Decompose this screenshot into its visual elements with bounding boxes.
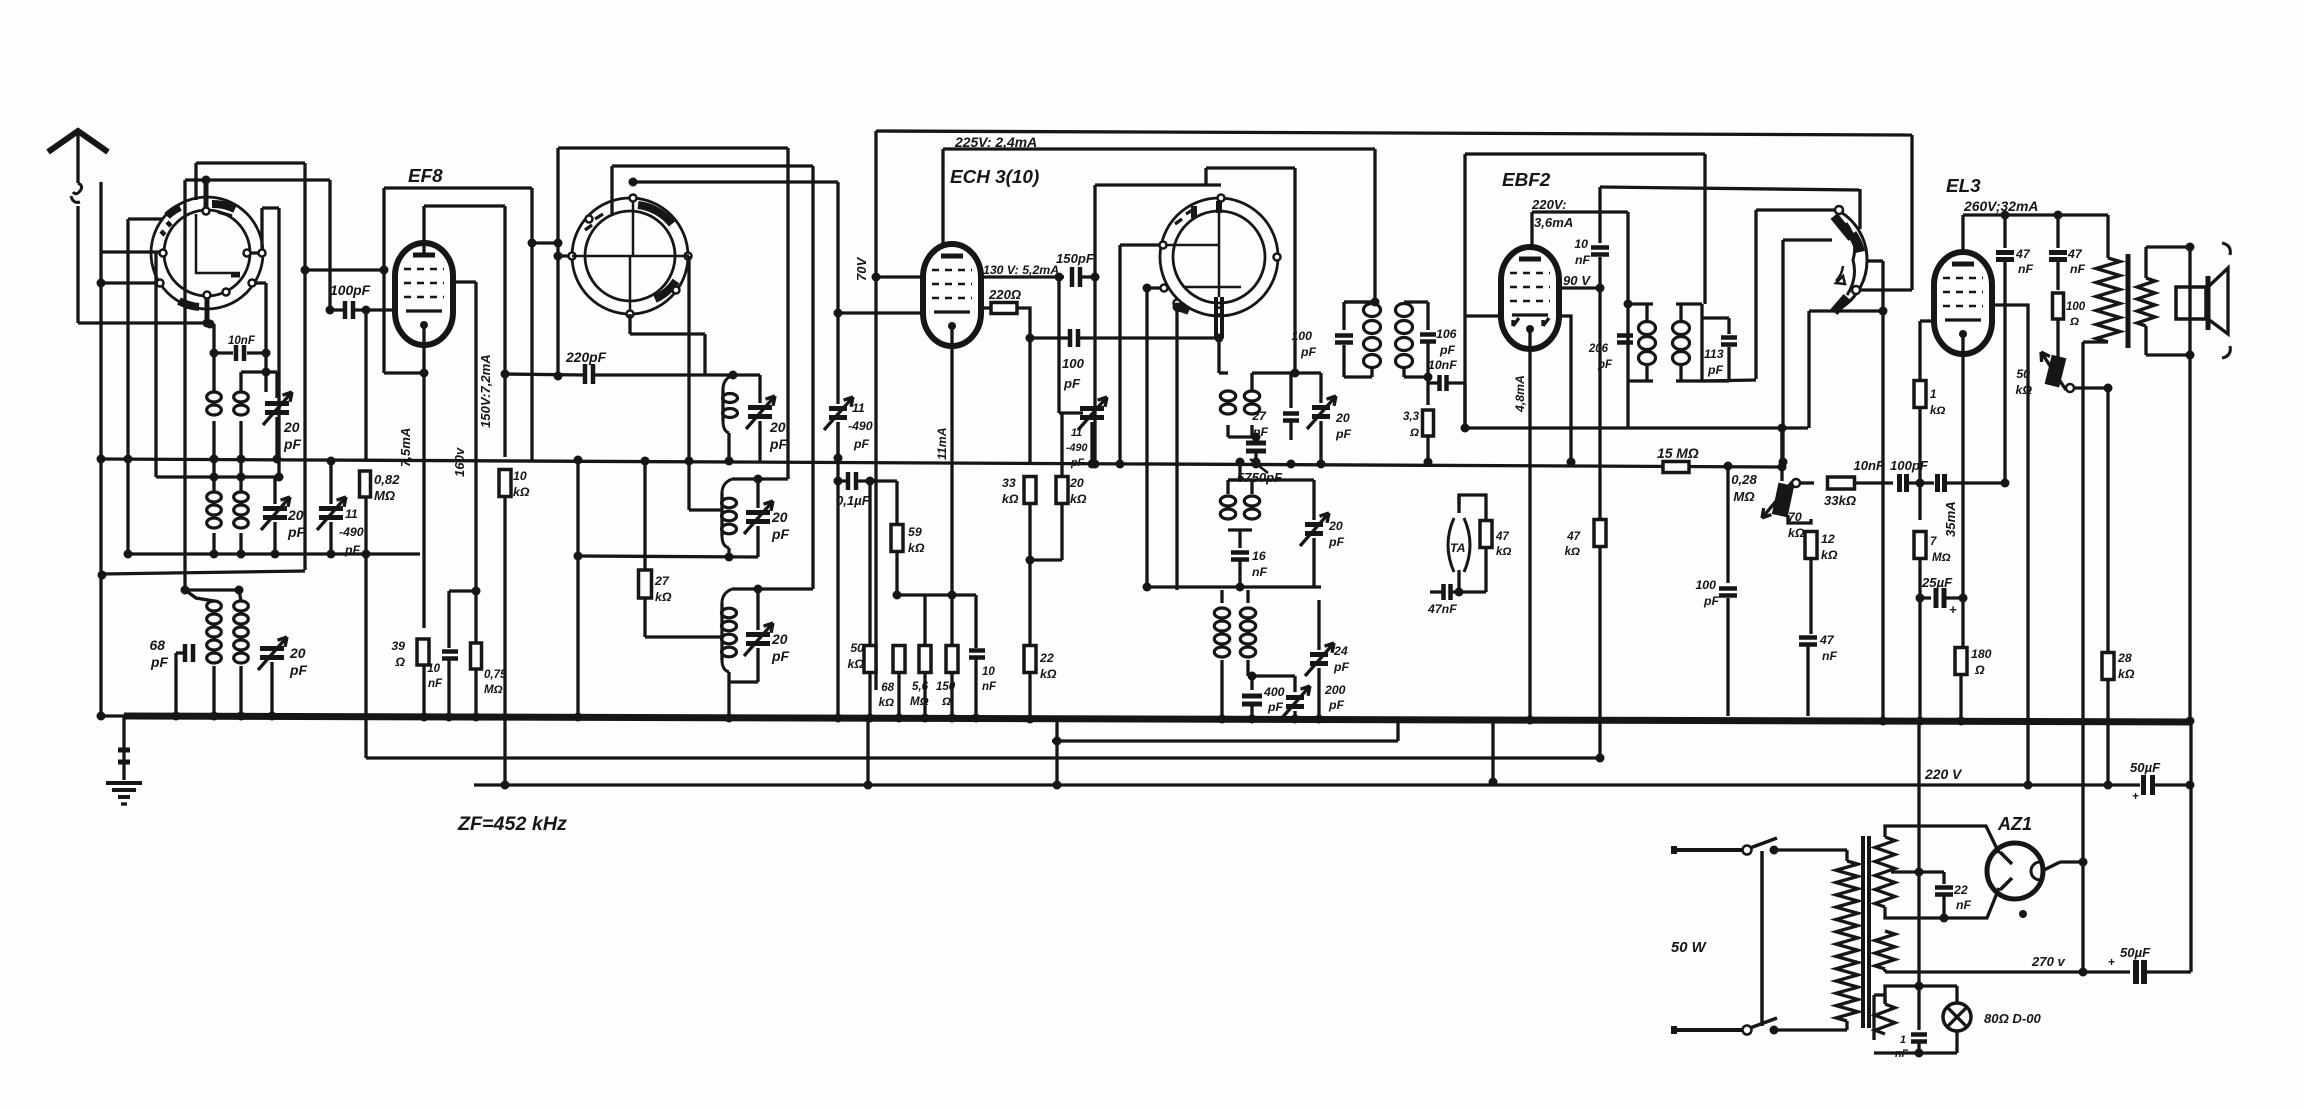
wires pair3 to bus: [212, 666, 215, 716]
output transformer secondary: [2137, 278, 2155, 326]
svg-text:20: 20: [771, 509, 788, 525]
capacitor 27pF: [1283, 411, 1299, 416]
resistor 220 Ohm: [981, 306, 991, 309]
switch A bottom stem: [205, 298, 210, 324]
svg-text:EF8: EF8: [408, 166, 443, 187]
svg-text:1: 1: [1900, 1034, 1906, 1046]
wire EBF2 cathode: [1528, 328, 1531, 720]
wire rail feeders: [866, 719, 869, 785]
capacitor 206pF: [1617, 333, 1633, 338]
wire 33k chain down: [1028, 504, 1031, 645]
trimmer 20pF osc set3: [756, 589, 759, 630]
wire switch A right stubs: [250, 251, 259, 254]
svg-text:5750pF: 5750pF: [1237, 470, 1283, 485]
resistor 10kOhm plate feed: [503, 374, 506, 457]
capacitor 68pF: [176, 651, 183, 654]
svg-text:pF: pF: [853, 437, 870, 451]
svg-text:50µF: 50µF: [2130, 760, 2161, 775]
svg-text:220pF: 220pF: [565, 349, 607, 365]
wire switch D feeds: [1910, 135, 1913, 290]
svg-text:22: 22: [1953, 883, 1968, 897]
band switch S1 section B: [572, 198, 688, 314]
wire osc top line to mixer grid: [629, 178, 638, 187]
wire osc grid coupling 0,1uF: [836, 422, 839, 718]
tuning gang C1 11-490pF: [329, 459, 332, 504]
svg-text:16: 16: [1252, 549, 1266, 563]
IF3 coils: [1214, 608, 1229, 618]
tube EL3: [1934, 252, 1992, 354]
svg-text:400: 400: [1263, 685, 1285, 699]
svg-text:EBF2: EBF2: [1502, 170, 1551, 191]
svg-text:MΩ: MΩ: [910, 696, 929, 708]
svg-text:130 V: 5,2mA: 130 V: 5,2mA: [983, 263, 1059, 277]
ground symbol: [106, 781, 142, 785]
capacitor 47nF: [1799, 635, 1817, 640]
wire EBF2 screen feed: [1532, 210, 1628, 213]
svg-text:nF: nF: [428, 678, 443, 690]
wire EL3 cathode: [1961, 333, 1964, 598]
svg-text:50 W: 50 W: [1671, 940, 1708, 956]
svg-text:+: +: [2108, 957, 2115, 969]
svg-text:-490: -490: [848, 419, 873, 433]
svg-text:27: 27: [654, 574, 670, 588]
svg-text:Ω: Ω: [2069, 316, 2079, 328]
wire tone tap down: [2106, 388, 2109, 652]
svg-text:50: 50: [850, 641, 864, 655]
svg-text:260V;32mA: 260V;32mA: [1963, 198, 2038, 214]
svg-text:15 MΩ: 15 MΩ: [1657, 445, 1699, 461]
svg-text:Ω: Ω: [1974, 663, 1985, 677]
ground lead: [122, 716, 125, 780]
svg-text:10nF: 10nF: [1853, 458, 1885, 473]
wire heater line down: [1917, 721, 1920, 872]
wire vertical feeder x101: [99, 182, 102, 716]
capacitor 100pF AVC: [1726, 466, 1729, 583]
capacitor 113pF: [1702, 316, 1729, 319]
power transformer primary: [1836, 861, 1858, 1021]
wire 220R to 100pF: [1017, 308, 1030, 338]
resistor 100 Ohm: [2053, 293, 2064, 319]
tuning gang stator feed: [1057, 277, 1060, 413]
wire EBF2 plate stub: [1559, 286, 1600, 289]
trimmer 200pF: [1286, 695, 1304, 700]
pilot lamp: [1943, 1003, 1971, 1031]
wire pot top: [1780, 428, 1783, 481]
wire pair1 bottom rail y459: [101, 459, 1782, 467]
wire 1,5MOhm AVC: [1663, 462, 1689, 473]
wire pot bottom chain 70kOhm: [1788, 515, 1811, 523]
capacitor 47nF EL3 b: [2056, 215, 2059, 248]
wire AVC line y187 to right: [1600, 187, 1859, 190]
svg-text:11: 11: [852, 401, 865, 415]
svg-text:MΩ: MΩ: [1733, 489, 1754, 504]
wire ECH3 plate rail: [943, 147, 1375, 150]
mains terminals: [1674, 848, 1743, 852]
svg-text:kΩ: kΩ: [1821, 548, 1838, 562]
output transformer core: [2126, 254, 2131, 348]
wire EL3 screen: [1991, 305, 2028, 785]
svg-text:20: 20: [1069, 476, 1084, 490]
svg-text:3,6mA: 3,6mA: [1534, 215, 1573, 230]
svg-text:68: 68: [881, 682, 894, 694]
svg-text:7: 7: [1930, 536, 1937, 548]
svg-text:pF: pF: [1267, 700, 1284, 714]
svg-text:25µF: 25µF: [1921, 575, 1953, 590]
svg-text:20: 20: [289, 645, 306, 661]
resistor 20kOhm: [1056, 477, 1068, 504]
wire ECH3 plate to 150pF: [981, 275, 1064, 278]
capacitor 50uF a: [2141, 775, 2146, 795]
svg-text:1: 1: [1930, 389, 1936, 401]
wire TA branch: [1459, 495, 1486, 520]
wire EL3 grid: [1920, 319, 1935, 322]
tube ECH3: [923, 244, 981, 346]
svg-text:47: 47: [2067, 247, 2083, 261]
wire 7M chain to bus: [1918, 598, 1921, 721]
coil L2b: [239, 459, 242, 492]
svg-text:-490: -490: [339, 525, 364, 539]
svg-text:pF: pF: [1703, 594, 1720, 608]
potentiometer 0,28MOhm: [1773, 484, 1793, 516]
svg-text:47: 47: [1819, 633, 1835, 647]
wire ECH3 mixer grid line: [838, 311, 924, 314]
power transformer core: [1861, 836, 1865, 1028]
svg-text:kΩ: kΩ: [1496, 546, 1511, 558]
capacitor 100pF grid: [1935, 474, 1940, 492]
antenna: [48, 131, 108, 152]
svg-text:10: 10: [982, 666, 995, 678]
wire osc box outer: [558, 146, 788, 149]
svg-text:10: 10: [427, 663, 440, 675]
svg-text:pF: pF: [1333, 660, 1350, 674]
svg-text:11: 11: [1071, 427, 1082, 439]
wire EBF2 box: [1465, 152, 1705, 155]
svg-text:7,5mA: 7,5mA: [398, 428, 413, 467]
svg-text:0,1µF: 0,1µF: [836, 493, 871, 508]
wire volume pot feed: [1778, 463, 1787, 472]
svg-text:20: 20: [1335, 411, 1350, 425]
svg-text:0,28: 0,28: [1731, 472, 1757, 487]
wire osc set2 bottom rail: [578, 556, 758, 557]
wire 270V line: [1883, 969, 1886, 972]
svg-text:100: 100: [1291, 329, 1312, 343]
wire 70V line: [876, 275, 924, 278]
wire upper line y163: [196, 161, 305, 164]
svg-text:24: 24: [1333, 644, 1348, 658]
svg-text:22: 22: [1039, 651, 1054, 665]
wire ECH3 cathode down: [950, 325, 953, 595]
switch D contact segment bottom: [1834, 297, 1847, 312]
svg-text:kΩ: kΩ: [2118, 667, 2135, 681]
svg-text:+: +: [2132, 791, 2139, 803]
oscillator coil set3: [722, 589, 732, 603]
svg-text:11: 11: [345, 507, 358, 521]
svg-text:MΩ: MΩ: [1932, 552, 1951, 564]
svg-text:pF: pF: [771, 526, 789, 542]
svg-text:39: 39: [391, 639, 405, 653]
svg-text:kΩ: kΩ: [513, 485, 530, 499]
coil L1a: [212, 324, 215, 392]
band switch S1 section D arc: [1839, 211, 1867, 308]
svg-text:70V: 70V: [854, 256, 869, 281]
wire switch B right stub down: [684, 254, 689, 257]
svg-text:nF: nF: [982, 681, 997, 693]
svg-text:33: 33: [1002, 476, 1016, 490]
wire HT center tap: [1891, 870, 1944, 873]
wire EBF2 anode to y465: [1559, 316, 1571, 462]
svg-text:pF: pF: [1439, 343, 1456, 357]
capacitor 100pF IF1: [1030, 336, 1068, 339]
svg-text:pF: pF: [1063, 376, 1081, 391]
svg-text:47: 47: [1495, 531, 1509, 543]
wire speaker field down: [2188, 355, 2191, 721]
output transformer primary: [2106, 215, 2109, 258]
IF2 transformer right LC: [1676, 302, 1702, 305]
power transformer heater winding: [1875, 931, 1895, 969]
wire IF interstage top: [1344, 300, 1375, 303]
resistor 1kOhm grid stopper: [1914, 381, 1926, 408]
capacitor 10nF grid: [1897, 474, 1902, 492]
svg-text:20: 20: [1328, 519, 1343, 533]
wire AVC y243: [532, 241, 558, 244]
capacitor 22nF: [1942, 872, 1945, 884]
svg-text:206: 206: [1588, 343, 1609, 355]
resistor 3,3 Ohm: [1426, 383, 1429, 405]
wire lamp rail: [1885, 986, 1957, 1004]
svg-text:50µF: 50µF: [2120, 945, 2151, 960]
wire primary bottom: [2083, 340, 2108, 343]
capacitor 10nF: [969, 648, 985, 653]
svg-text:kΩ: kΩ: [2016, 383, 2033, 397]
IF interstage secondary coil: [1396, 304, 1413, 317]
tube EBF2: [1501, 247, 1559, 349]
switch D rotor arrow: [1836, 266, 1843, 281]
wire mains to primary: [1774, 848, 1847, 851]
wire EF8 box: [384, 186, 532, 189]
svg-text:nF: nF: [1575, 253, 1591, 267]
wire EL3 HT line: [1963, 213, 2108, 216]
capacitor 47nF EL3 a: [2003, 215, 2006, 248]
wire AZ1 up feed: [2081, 342, 2084, 862]
svg-text:pF: pF: [287, 524, 305, 540]
wire osc box second: [612, 164, 813, 167]
svg-text:MΩ: MΩ: [374, 488, 395, 503]
resistor 68kOhm: [893, 646, 905, 673]
wire det output: [1626, 381, 1629, 428]
svg-text:MΩ: MΩ: [484, 684, 503, 696]
wire EF8 screen 160V: [452, 280, 476, 283]
wire right edge down: [2189, 721, 2192, 972]
svg-text:270 v: 270 v: [2031, 954, 2065, 969]
trimmer 24pF: [1310, 652, 1328, 657]
svg-text:220 V: 220 V: [1924, 766, 1963, 782]
capacitor 47nF TA: [1457, 570, 1460, 592]
resistor 33kOhm: [1828, 477, 1855, 489]
speaker frame: [2144, 247, 2147, 278]
wire osc set3 bottom rail: [729, 680, 758, 683]
capacitor 1nF: [1917, 986, 1920, 1030]
wire HT bottom lead: [1885, 888, 1999, 918]
trimmer C-ant 20pF: [266, 370, 277, 373]
wire rail y741: [1052, 739, 1398, 742]
svg-text:pF: pF: [1300, 345, 1317, 359]
wire osc set2 coil tap: [687, 461, 690, 510]
svg-text:pF: pF: [150, 654, 168, 670]
svg-text:kΩ: kΩ: [848, 657, 865, 671]
resistor 7MOhm: [1918, 483, 1921, 520]
svg-text:pF: pF: [1335, 427, 1352, 441]
wire switch A top to EF8 grid line: [202, 176, 211, 185]
svg-text:nF: nF: [1252, 565, 1268, 579]
trimmer 20pF pair3: [260, 646, 284, 651]
svg-text:nF: nF: [1956, 898, 1972, 912]
svg-text:100: 100: [1062, 356, 1085, 371]
wire IF1 box top: [1095, 183, 1221, 186]
EBF2 diode plates: [1513, 318, 1519, 326]
svg-text:11mA: 11mA: [935, 427, 949, 460]
bottom resistor row wires: [868, 481, 871, 645]
capacitor 0,1uF: [846, 472, 851, 490]
svg-text:pF: pF: [1070, 457, 1085, 469]
svg-text:28: 28: [2117, 651, 2132, 665]
svg-text:kΩ: kΩ: [908, 541, 925, 555]
trimmer 20pF IF1sec: [1305, 522, 1323, 527]
svg-text:220Ω: 220Ω: [988, 287, 1021, 302]
svg-text:kΩ: kΩ: [1565, 546, 1580, 558]
wire switch B left stub: [558, 254, 568, 257]
capacitor 50uF b: [2133, 960, 2139, 984]
resistor 50kOhm: [864, 646, 876, 673]
capacitor 25uF: [1916, 594, 1925, 603]
wire rail 220V y783: [474, 783, 2140, 786]
wire switch B bottom stem: [628, 314, 631, 334]
svg-text:kΩ: kΩ: [879, 697, 894, 709]
svg-text:100: 100: [2066, 301, 2086, 313]
svg-text:47: 47: [2015, 247, 2031, 261]
svg-text:27: 27: [1251, 409, 1267, 423]
resistor 0,75MOhm screen: [471, 643, 482, 669]
svg-text:+: +: [1949, 602, 1957, 617]
wire osc set3 top rail: [732, 587, 813, 590]
capacitor 106pF: [1404, 300, 1428, 303]
svg-text:35mA: 35mA: [1943, 501, 1958, 537]
svg-text:4,8mA: 4,8mA: [1513, 375, 1527, 413]
wire lamp bottom: [1874, 1051, 1957, 1054]
capacitor 400pF: [1250, 676, 1253, 690]
svg-text:EL3: EL3: [1946, 176, 1981, 197]
resistor 0,82MOhm grid leak: [364, 310, 367, 459]
capacitor 10nF EBF2: [1591, 245, 1609, 250]
IF1 primary coil a: [1220, 391, 1235, 401]
wire AZ1 cathode: [2042, 862, 2060, 871]
wire det 10nF: [1424, 373, 1433, 382]
svg-text:pF: pF: [1328, 698, 1345, 712]
wire IF1 bottom rail y462 dots: [1091, 460, 1100, 469]
switch A top stem: [204, 182, 209, 208]
svg-text:200: 200: [1324, 683, 1346, 697]
svg-text:ZF=452 kHz: ZF=452 kHz: [457, 813, 567, 835]
svg-text:220V:: 220V:: [1531, 197, 1566, 212]
wire EF8 plate line to 220pF: [505, 374, 584, 375]
svg-text:TA: TA: [1450, 541, 1465, 555]
svg-text:Ω: Ω: [394, 655, 405, 669]
wire vertical feeder x185: [183, 180, 186, 590]
svg-text:113: 113: [1704, 347, 1724, 361]
trimmer 20pF osc set2: [756, 479, 759, 508]
power transformer dial lamp winding: [1875, 1004, 1895, 1034]
resistor 47kOhm diode load: [1594, 520, 1606, 547]
svg-text:80Ω D-00: 80Ω D-00: [1984, 1011, 2042, 1026]
TA pickup jack: [1448, 518, 1454, 572]
svg-text:10: 10: [513, 469, 527, 483]
svg-text:150pF: 150pF: [1056, 251, 1095, 266]
wire rail y758: [366, 756, 1600, 759]
svg-text:150V:7,2mA: 150V:7,2mA: [478, 354, 493, 428]
resistor 33kOhm: [1028, 338, 1031, 463]
trimmer 20pF pair2: [273, 477, 276, 504]
svg-text:pF: pF: [769, 436, 787, 452]
svg-text:59: 59: [908, 525, 922, 539]
wire pair3 top rail y590: [185, 588, 239, 591]
band switch S1 section C: [1160, 198, 1278, 316]
resistor 22kOhm: [1024, 646, 1036, 673]
svg-text:10: 10: [1574, 237, 1588, 251]
svg-text:90 V: 90 V: [1563, 273, 1591, 288]
capacitor 10nF cathode: [447, 591, 450, 648]
svg-text:kΩ: kΩ: [1788, 526, 1805, 540]
svg-text:Ω: Ω: [941, 696, 951, 708]
wire switch A left stubs: [101, 250, 160, 253]
svg-text:68: 68: [150, 637, 166, 653]
svg-text:20: 20: [283, 419, 300, 435]
svg-text:12: 12: [1821, 532, 1835, 546]
band switch S1 section A: [151, 197, 263, 309]
svg-text:106: 106: [1436, 327, 1457, 341]
svg-text:47nF: 47nF: [1427, 602, 1457, 616]
svg-text:150: 150: [936, 681, 956, 693]
switch D contact segment top: [1834, 216, 1852, 238]
resistor 150 Ohm cathode: [946, 646, 958, 673]
wire switch D output: [1867, 259, 1883, 262]
svg-text:nF: nF: [1822, 649, 1838, 663]
wire grid line y483: [1855, 481, 1893, 484]
trimmer 20pF osc: [733, 373, 760, 376]
svg-text:100pF: 100pF: [1890, 458, 1929, 473]
speaker: [2176, 287, 2206, 319]
svg-text:AZ1: AZ1: [1997, 814, 2032, 834]
power transformer HT secondary: [1875, 837, 1895, 907]
svg-text:kΩ: kΩ: [1002, 492, 1019, 506]
IF2 transformer left LC: [1628, 302, 1653, 305]
ground bus: [124, 716, 2191, 722]
svg-text:kΩ: kΩ: [1040, 667, 1057, 681]
oscillator coil set2: [722, 479, 732, 493]
svg-text:pF: pF: [771, 648, 789, 664]
svg-text:20: 20: [771, 631, 788, 647]
svg-text:nF: nF: [2070, 262, 2086, 276]
svg-text:kΩ: kΩ: [1930, 405, 1945, 417]
IF2 secondary coils: [1226, 480, 1229, 494]
coil L3a: [185, 590, 214, 601]
resistor 27kOhm: [643, 461, 646, 570]
tuning gang C2 11-490pF: [829, 406, 847, 411]
wire bottom dots: [895, 714, 904, 723]
svg-text:kΩ: kΩ: [655, 590, 672, 604]
wire circle3 left feeders: [1120, 243, 1160, 246]
svg-text:3,3: 3,3: [1403, 411, 1420, 423]
resistor 28kOhm: [2102, 653, 2114, 680]
resistor 5,6MOhm: [919, 646, 931, 673]
